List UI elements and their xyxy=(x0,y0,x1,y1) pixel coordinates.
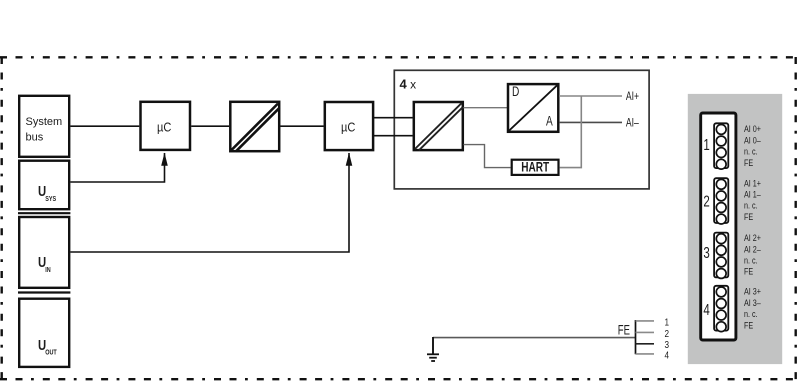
wire USYS to uC1 with arrow xyxy=(70,153,167,182)
FE stub 4 xyxy=(636,353,655,355)
isolator barrier 2 xyxy=(414,102,463,150)
svg-text:AI+: AI+ xyxy=(626,91,639,103)
wire uC1 to isolator 1 xyxy=(191,125,229,127)
block UIN xyxy=(19,217,69,288)
svg-text:n. c.: n. c. xyxy=(744,201,758,211)
HART modem xyxy=(512,159,559,175)
terminal labels group 2 xyxy=(744,179,761,223)
svg-text:3: 3 xyxy=(703,243,710,261)
svg-text:AI 2+: AI 2+ xyxy=(744,233,761,243)
svg-text:AI 1–: AI 1– xyxy=(744,190,761,200)
svg-text:FE: FE xyxy=(744,267,754,277)
isolator barrier 1 xyxy=(230,102,279,152)
svg-text:4: 4 xyxy=(665,348,670,360)
terminal labels group 3 xyxy=(744,233,761,277)
wire isolator 2 to DAC xyxy=(464,107,508,109)
svg-text:SYS: SYS xyxy=(45,195,56,203)
svg-text:2: 2 xyxy=(703,191,710,209)
svg-text:AI 0–: AI 0– xyxy=(744,136,761,146)
svg-text:µC: µC xyxy=(341,119,356,134)
svg-text:HART: HART xyxy=(521,159,549,175)
FE stub 3 xyxy=(636,343,655,345)
FE stub 2 xyxy=(636,331,655,333)
svg-text:IN: IN xyxy=(45,266,51,274)
wire DAC to AI- xyxy=(559,121,622,123)
terminal connector block xyxy=(701,113,736,340)
svg-text:n. c.: n. c. xyxy=(744,147,758,157)
wire HART to AI+ node xyxy=(560,96,582,168)
svg-text:FE: FE xyxy=(618,322,630,338)
svg-text:1: 1 xyxy=(665,315,670,327)
svg-text:bus: bus xyxy=(26,131,44,143)
svg-text:FE: FE xyxy=(744,158,754,168)
terminal labels group 1 xyxy=(744,124,761,168)
wire FE bus xyxy=(433,337,636,339)
wire DAC to AI+ xyxy=(559,95,622,97)
wire uC2 to isolator 2 upper xyxy=(373,117,413,119)
block UOUT xyxy=(19,299,69,367)
separator line 1 xyxy=(18,212,70,214)
svg-text:AI 3–: AI 3– xyxy=(744,298,761,308)
svg-text:1: 1 xyxy=(703,135,710,153)
svg-text:AI–: AI– xyxy=(626,117,639,129)
ground xyxy=(427,337,439,361)
terminal group 2 xyxy=(714,178,728,224)
wire isolator 2 to HART xyxy=(464,145,511,168)
svg-text:AI 2–: AI 2– xyxy=(744,245,761,255)
svg-text:FE: FE xyxy=(744,321,754,331)
microcontroller uC2 xyxy=(325,102,373,150)
microcontroller uC1 xyxy=(141,102,191,150)
svg-text:OUT: OUT xyxy=(45,349,57,357)
svg-text:µC: µC xyxy=(157,119,172,134)
wire uC2 to isolator 2 lower xyxy=(373,135,413,137)
svg-text:AI 0+: AI 0+ xyxy=(744,124,761,134)
svg-text:4 x: 4 x xyxy=(400,77,417,92)
wire isolator 1 to uC2 xyxy=(280,125,323,127)
block USYS xyxy=(19,161,69,210)
group box 4x xyxy=(394,70,649,189)
terminal panel xyxy=(688,94,782,364)
dashed frame top xyxy=(0,56,796,58)
svg-text:n. c.: n. c. xyxy=(744,309,758,319)
dashed frame right xyxy=(795,57,797,381)
svg-text:AI 1+: AI 1+ xyxy=(744,179,761,189)
dashed frame bottom xyxy=(0,378,796,380)
terminal labels group 4 xyxy=(744,287,761,331)
DAC D/A converter xyxy=(508,83,558,131)
svg-text:n. c.: n. c. xyxy=(744,256,758,266)
terminal group 4 xyxy=(714,286,728,332)
FE stub 1 xyxy=(636,320,655,322)
wire System bus to uC1 xyxy=(70,125,139,127)
dashed frame left xyxy=(1,57,3,381)
svg-text:AI 3+: AI 3+ xyxy=(744,287,761,297)
terminal group 3 xyxy=(714,233,728,279)
block System bus xyxy=(19,96,69,157)
separator line 2 xyxy=(18,291,70,293)
terminal group 1 xyxy=(714,123,728,169)
svg-text:System: System xyxy=(26,116,63,128)
FE fan-out vertical xyxy=(635,320,637,354)
svg-text:FE: FE xyxy=(744,212,754,222)
svg-text:A: A xyxy=(546,113,553,129)
svg-text:D: D xyxy=(512,83,520,99)
svg-text:4: 4 xyxy=(703,300,710,318)
wire UIN to uC2 with arrow xyxy=(70,153,352,252)
